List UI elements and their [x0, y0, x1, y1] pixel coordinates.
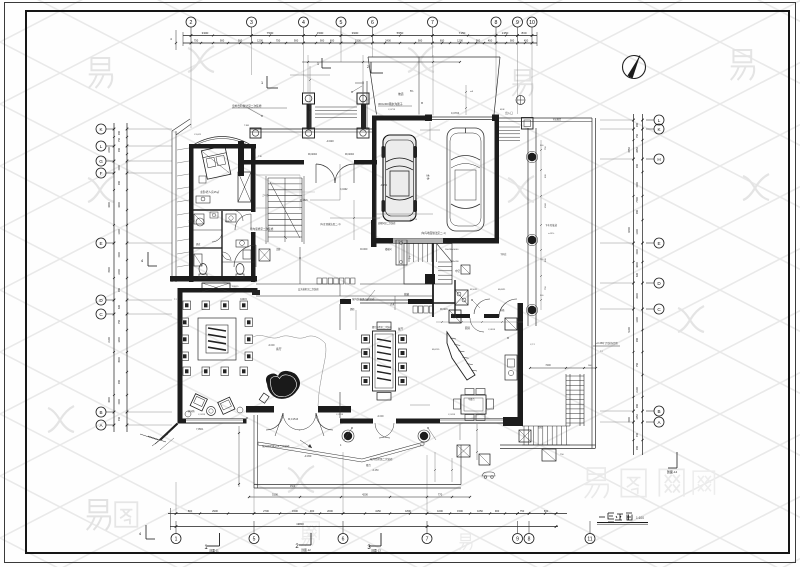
svg-text:4: 4: [302, 20, 305, 26]
top left small marks: [175, 30, 177, 50]
svg-text:770: 770: [438, 493, 443, 497]
svg-text:2100: 2100: [108, 337, 111, 343]
canopy vertical bars: [307, 104, 312, 129]
bed: [201, 146, 231, 179]
drawing title: [597, 513, 648, 524]
svg-text:储藏: 储藏: [404, 292, 410, 296]
driveway outline: [368, 57, 500, 115]
entry pier west: [238, 141, 244, 176]
svg-text:900: 900: [636, 403, 639, 408]
svg-text:(车库顶做法见二-1): (车库顶做法见二-1): [320, 222, 341, 226]
svg-text:5%: 5%: [410, 91, 413, 93]
svg-text:750: 750: [118, 319, 121, 324]
dining north window: [360, 300, 408, 303]
svg-text:900: 900: [310, 509, 315, 513]
hall shelf row: [317, 278, 355, 284]
svg-text:下车库坡道: 下车库坡道: [545, 223, 558, 227]
corridor partition wall: [432, 243, 434, 317]
main stair dark block: [425, 274, 435, 284]
left dimension ticks: [113, 128, 129, 427]
svg-text:2: 2: [190, 20, 193, 26]
svg-text:L: L: [100, 144, 103, 149]
bath toilet 1: [199, 264, 207, 275]
svg-text:M,1521: M,1521: [300, 200, 308, 202]
canopy pier west: [303, 128, 315, 138]
svg-text:坡道: 坡道: [398, 92, 404, 96]
kitchen top door gap arc: [470, 314, 484, 332]
colonnade tiny labels: [545, 146, 547, 290]
svg-text:7700: 7700: [636, 197, 639, 203]
dining chair bottom: [377, 393, 391, 401]
bedroom block south wall: [170, 276, 257, 282]
svg-text:E: E: [99, 241, 102, 246]
svg-text:1500: 1500: [636, 249, 639, 255]
bedroom east wall lower: [251, 232, 256, 282]
bath shower: [194, 214, 204, 224]
svg-text:上: 上: [408, 254, 411, 259]
terrace misc dim: [434, 452, 453, 482]
left dimension line 1: [113, 123, 115, 432]
right dimension numbers: [628, 122, 639, 450]
svg-text:1500: 1500: [317, 31, 324, 35]
svg-text:C,0715: C,0715: [388, 109, 396, 111]
svg-text:830: 830: [521, 31, 526, 35]
dining north wall piece east: [408, 299, 433, 304]
entry wall east segment: [354, 160, 377, 165]
svg-text:1:100: 1:100: [636, 516, 644, 520]
svg-text:1500: 1500: [355, 39, 361, 43]
svg-text:5: 5: [340, 20, 343, 26]
svg-text:出入口: 出入口: [505, 111, 513, 115]
svg-text:1500: 1500: [545, 202, 547, 208]
hall small square: [461, 265, 470, 274]
main stair flight 1: [404, 244, 452, 285]
svg-text:750: 750: [520, 509, 525, 513]
svg-text:4500: 4500: [108, 267, 111, 273]
terrace door stub east: [318, 406, 351, 413]
svg-text:2900: 2900: [212, 509, 218, 513]
svg-text:5100: 5100: [628, 327, 631, 333]
svg-text:3300: 3300: [202, 31, 209, 35]
svg-text:M,0F: M,0F: [500, 109, 505, 111]
garage north wall: [372, 116, 499, 121]
dining chair top: [377, 322, 391, 330]
bath toilet 2: [236, 264, 244, 275]
svg-text:1500: 1500: [118, 399, 121, 405]
dining south door opening: [373, 419, 396, 439]
svg-text:C,2415: C,2415: [448, 414, 456, 416]
right axis grid circles: [654, 115, 664, 427]
svg-text:18x280: 18x280: [452, 261, 459, 263]
entry portal mark: [516, 96, 525, 105]
svg-text:C2015: C2015: [240, 299, 247, 301]
canopy column east: [357, 93, 369, 104]
svg-text:G: G: [99, 159, 103, 164]
svg-text:1200: 1200: [457, 39, 463, 43]
side entry steps: [499, 127, 520, 141]
svg-text:2600: 2600: [636, 293, 639, 299]
left section marker 4: [141, 252, 157, 266]
svg-text:750: 750: [636, 362, 639, 367]
svg-text:3800: 3800: [636, 262, 639, 268]
svg-text:室外台阶做法见二次装修: 室外台阶做法见二次装修: [232, 104, 262, 108]
left axis stems: [106, 129, 114, 425]
bedside table: [199, 176, 206, 183]
bedroom east wall upper: [251, 144, 256, 212]
svg-text:5100: 5100: [272, 493, 278, 497]
svg-text:300x300雨水沟篦子: 300x300雨水沟篦子: [378, 102, 403, 106]
top dimension ticks: [175, 32, 537, 46]
garage east wall: [495, 117, 500, 243]
svg-text:450: 450: [488, 39, 493, 43]
bottom overall dimension line: [170, 508, 558, 530]
svg-text:7500: 7500: [267, 31, 274, 35]
driveway label bracket 2: [367, 62, 383, 73]
svg-text:1: 1: [175, 537, 178, 543]
svg-text:6: 6: [342, 537, 345, 543]
bedroom bay arc: [193, 137, 251, 146]
svg-text:900: 900: [118, 379, 121, 384]
svg-text:18x280=5040: 18x280=5040: [445, 249, 459, 251]
dining south wall: [340, 419, 432, 424]
terrace column west: [344, 432, 352, 440]
svg-text:+0.450门厅装饰台阶: +0.450门厅装饰台阶: [596, 341, 618, 345]
svg-text:TJ: TJ: [174, 299, 176, 301]
svg-text:1200: 1200: [118, 229, 121, 235]
top axis grid circles: [186, 17, 537, 27]
svg-text:C,TJ: C,TJ: [530, 344, 535, 346]
svg-text:C,0704: C,0704: [451, 111, 460, 115]
svg-text:3900: 3900: [118, 357, 121, 363]
svg-text:剖面-14: 剖面-14: [667, 469, 678, 474]
annotation texts: [174, 91, 602, 488]
piano: [259, 371, 300, 403]
svg-text:5550: 5550: [397, 31, 404, 35]
hall wall stub: [371, 220, 377, 247]
svg-text:8: 8: [528, 537, 531, 543]
svg-text:B: B: [657, 409, 660, 414]
rug ornament ring: [181, 301, 253, 376]
kitchen south window: [440, 419, 510, 423]
svg-text:2400: 2400: [118, 269, 121, 275]
pantry walls: [433, 280, 455, 317]
svg-text:900: 900: [220, 39, 225, 43]
bottom section marker 2: [295, 533, 311, 552]
svg-text:600: 600: [330, 39, 335, 43]
svg-text:M,0215: M,0215: [440, 309, 448, 311]
porch bracket 1: [261, 76, 278, 88]
svg-text:900: 900: [510, 39, 515, 43]
svg-text:1: 1: [261, 81, 263, 85]
bedroom door arc: [235, 214, 251, 230]
fireplace cabinet: [202, 283, 230, 292]
colonnade dim marks: [540, 140, 542, 310]
svg-text:900: 900: [118, 180, 121, 185]
corridor closet: [259, 249, 270, 261]
kitchen terrace dim: [460, 424, 478, 460]
svg-text:5: 5: [253, 537, 256, 543]
svg-text:1350: 1350: [502, 31, 509, 35]
entry wall west segment: [238, 160, 304, 165]
svg-text:C,0202: C,0202: [340, 189, 348, 191]
car 1: [383, 135, 416, 221]
path edge left of driveway: [362, 81, 364, 130]
kitchen top wall: [451, 314, 499, 318]
colonnade rails: [528, 128, 536, 326]
left dimension line 2: [126, 123, 128, 432]
planter boxes right terrace: [457, 430, 556, 465]
svg-text:B: B: [99, 410, 102, 415]
svg-text:室外台阶做法见二次装修: 室外台阶做法见二次装修: [262, 444, 290, 448]
right axis stems: [646, 120, 654, 422]
kitchen table: [454, 389, 494, 421]
svg-text:车库: 车库: [426, 174, 430, 180]
dining west boundary segments: [339, 304, 341, 418]
right section marker bracket: [667, 452, 678, 474]
bottom upper dimension line: [249, 496, 470, 498]
living south window: [186, 419, 243, 423]
svg-text:4150: 4150: [375, 509, 381, 513]
svg-text:2400: 2400: [108, 147, 111, 153]
fridge: [505, 318, 517, 330]
terrace V decoration: [258, 442, 424, 462]
svg-text:800: 800: [188, 509, 193, 513]
bath extra fixtures: [193, 212, 255, 266]
dining chairs right: [399, 335, 407, 385]
svg-text:900: 900: [636, 209, 639, 214]
main stair flight 2: [438, 262, 452, 280]
porch steps: [315, 107, 357, 118]
rug center: [198, 318, 236, 360]
wine cabinet: [413, 306, 434, 313]
watermark logo text bottom left: [87, 500, 110, 530]
svg-text:2: 2: [367, 65, 369, 69]
svg-text:1050: 1050: [636, 414, 639, 420]
canopy pier east: [357, 128, 369, 138]
svg-text:900: 900: [636, 445, 639, 450]
bedroom bath partition horizontal: [193, 209, 251, 211]
svg-text:1200: 1200: [257, 39, 263, 43]
living west wall: [178, 288, 183, 423]
svg-text:3750: 3750: [628, 147, 631, 153]
kitchen corridor dim: [436, 321, 523, 323]
svg-text:(车库地面做法见二-1): (车库地面做法见二-1): [421, 231, 446, 235]
bath sink 1: [196, 218, 204, 226]
svg-text:客厅: 客厅: [276, 347, 282, 351]
svg-text:C1,021: C1,021: [194, 134, 202, 136]
bottom axis stems: [176, 521, 590, 534]
svg-text:9: 9: [516, 20, 519, 26]
dining table: [373, 331, 396, 391]
svg-text:7: 7: [426, 537, 429, 543]
svg-text:2100: 2100: [636, 387, 639, 393]
top dimension line 1: [183, 35, 537, 37]
svg-text:4200: 4200: [362, 493, 368, 497]
stair side cabinet: [396, 240, 407, 265]
terrace door stub west: [246, 406, 274, 413]
svg-text:室内装修见二次装修: 室内装修见二次装修: [352, 297, 375, 301]
svg-text:M,0921: M,0921: [498, 289, 506, 291]
bottom dimension numbers: [188, 509, 549, 513]
svg-text:900: 900: [118, 147, 121, 152]
terrace door annotation: [593, 341, 620, 346]
right dimension line 1: [633, 114, 635, 455]
sofa armchair 2: [218, 397, 235, 414]
bottom section marker 3: [367, 533, 381, 553]
west stair treads: [266, 176, 304, 244]
hall floor tile marks: [285, 175, 315, 210]
canopy pier far west: [250, 128, 261, 138]
canopy column west: [303, 93, 315, 104]
svg-text:2000: 2000: [327, 509, 333, 513]
wardrobe: [238, 172, 251, 202]
svg-text:3: 3: [250, 20, 253, 26]
svg-text:7200: 7200: [545, 364, 551, 367]
bedroom balcony outer line: [172, 119, 191, 282]
svg-text:4500: 4500: [290, 486, 296, 488]
svg-text:C2015: C2015: [232, 286, 239, 288]
svg-text:E: E: [657, 241, 660, 246]
kitchen lower unit: [449, 310, 461, 323]
bath door arcs: [232, 210, 243, 221]
svg-text:6: 6: [371, 20, 374, 26]
svg-text:1050: 1050: [477, 509, 483, 513]
terrace french doors: [266, 413, 333, 436]
svg-text:900: 900: [118, 130, 121, 135]
living door arc: [234, 245, 256, 267]
svg-text:剖面-12: 剖面-12: [301, 548, 311, 552]
entry door arcs: [316, 164, 335, 183]
watermark yi glyphs: [89, 58, 112, 88]
east terrace edge: [499, 118, 596, 448]
sofa round table: [207, 407, 216, 416]
svg-text:3900: 3900: [352, 31, 359, 35]
svg-text:3300: 3300: [108, 202, 111, 208]
left extension lines: [127, 129, 172, 425]
svg-text:C,0915: C,0915: [488, 329, 496, 331]
garage north door opening: [425, 115, 499, 122]
svg-text:剖面-13: 剖面-13: [371, 549, 381, 553]
svg-text:1800: 1800: [118, 337, 121, 343]
terrace column east: [420, 432, 428, 440]
outdoor stair dim: [529, 364, 597, 369]
kitchen stove unit: [455, 290, 468, 305]
svg-text:900: 900: [495, 509, 500, 513]
svg-text:900: 900: [476, 39, 481, 43]
svg-text:1800: 1800: [405, 509, 411, 513]
living south wall west: [178, 419, 247, 424]
interior dim chain driveway: [465, 85, 467, 115]
right dimension ticks: [632, 119, 644, 441]
svg-text:TJ08: TJ08: [244, 125, 250, 127]
bath partition horizontal 2: [193, 247, 222, 249]
svg-text:3000: 3000: [108, 397, 111, 403]
svg-text:7: 7: [431, 20, 434, 26]
svg-text:M,0215: M,0215: [432, 349, 440, 351]
corridor west end marks: [252, 290, 260, 295]
svg-text:750: 750: [276, 39, 281, 43]
top dimension extension drops: [191, 43, 532, 128]
bottom main dimension line: [168, 513, 567, 515]
svg-text:M,1021: M,1021: [470, 289, 478, 291]
kitchen wall counter: [505, 355, 517, 380]
svg-text:1500: 1500: [457, 509, 463, 513]
sofa armchair 1: [190, 394, 207, 411]
kitchen south wall: [432, 419, 523, 424]
svg-text:1500: 1500: [118, 165, 121, 171]
bath partition vertical: [221, 211, 223, 276]
svg-text:1: 1: [317, 62, 319, 66]
interior dim chain entry: [290, 66, 330, 128]
svg-text:2700: 2700: [263, 509, 269, 513]
svg-text:1200: 1200: [636, 317, 639, 323]
watermark curl marks: [48, 46, 769, 492]
bedroom balcony hatch: [177, 148, 189, 267]
bedroom west wall: [189, 144, 194, 282]
svg-text:830: 830: [544, 509, 549, 513]
terrace south edge: [254, 445, 461, 488]
svg-text:-0.150: -0.150: [380, 184, 388, 187]
svg-text:1500: 1500: [628, 417, 631, 423]
svg-text:-0.450: -0.450: [304, 454, 312, 458]
dining chairs left: [362, 335, 370, 385]
leader dots: [246, 91, 508, 428]
svg-text:L: L: [658, 118, 661, 123]
svg-text:9: 9: [516, 537, 519, 543]
svg-text:900: 900: [418, 39, 423, 43]
right dimension line 2: [642, 114, 644, 455]
svg-text:7150: 7150: [459, 31, 466, 35]
bottom dimension ticks: [175, 512, 558, 515]
svg-text:900: 900: [636, 163, 639, 168]
svg-text:900: 900: [636, 122, 639, 127]
colonnade column 3: [528, 306, 536, 314]
outdoor stair horizontal run: [522, 426, 570, 445]
svg-text:厨房: 厨房: [465, 326, 471, 330]
svg-text:3300: 3300: [118, 202, 121, 208]
bottom extension risers: [176, 426, 427, 513]
svg-text:19800: 19800: [296, 522, 304, 526]
terrace left edge: [254, 415, 258, 488]
colonnade column 1: [528, 153, 536, 161]
svg-text:1500: 1500: [118, 252, 121, 258]
living sw chamfer: [140, 424, 178, 451]
left axis grid circles: [96, 124, 106, 430]
svg-text:900: 900: [320, 39, 325, 43]
top dimension numbers: [194, 31, 529, 43]
bottom axis grid circles: [171, 534, 595, 544]
garage south wall: [372, 238, 499, 244]
kitchen corridor arc: [499, 299, 517, 317]
svg-text:1500: 1500: [292, 509, 298, 513]
svg-text:室外台阶第二次装修: 室外台阶第二次装修: [370, 457, 393, 461]
svg-text:i=15%: i=15%: [548, 233, 554, 235]
top dimension line 2: [183, 42, 537, 44]
svg-text:900: 900: [636, 337, 639, 342]
interior dim chain garage: [420, 122, 440, 140]
dining north wall piece west: [340, 299, 351, 304]
svg-text:-0.000: -0.000: [377, 416, 384, 418]
hall extra thin lines: [256, 164, 433, 238]
sofa plant: [185, 411, 191, 417]
svg-text:Y,0501: Y,0501: [196, 428, 204, 431]
hall door arc to kitchen corridor: [474, 299, 490, 315]
svg-text:11: 11: [587, 537, 592, 543]
interior dim chain dining: [356, 310, 430, 405]
terrace south edge right: [500, 445, 596, 449]
kitchen east wall: [518, 303, 524, 426]
car 2: [447, 128, 484, 231]
